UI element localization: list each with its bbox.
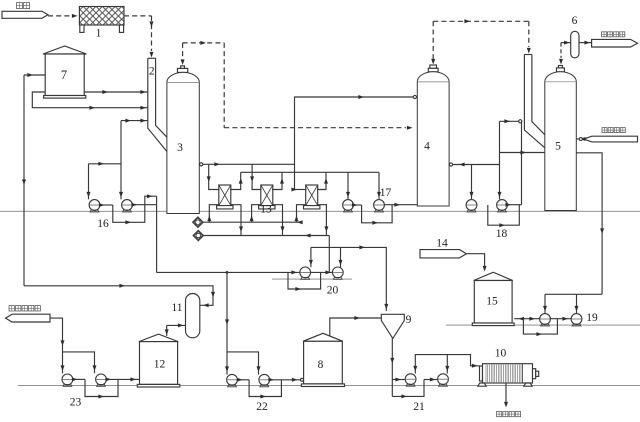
wire: capsule 11 to tank 12 [167,324,186,326]
svg-text:19: 19 [586,312,598,324]
heat exchanger battery 13 (3 units) [219,185,231,206]
wire: flag 14 to tank 15 [466,254,484,268]
svg-text:6: 6 [572,15,578,27]
wire: thickener 9 underflow [391,338,393,396]
dashed: top line into column 4 and duct 5 [433,20,529,22]
wire: HX3 lower-left drop [297,205,307,223]
ground line under pumps 20 [272,278,352,280]
svg-text:10: 10 [495,348,507,360]
wire: pump 22 discharge to tank 8 [237,379,249,381]
wire: pump 23 discharge to tank 12 [73,378,85,380]
wire: capsule 6 inlet [561,42,571,44]
wire: pump 18 discharge riser [507,204,521,206]
wire: downcomer x=156.6 to y=272.4 [156,196,158,272]
flag 含废酸工序 (waste acid) [6,314,51,322]
column 5 nozzle cap [556,68,564,72]
wire: pumps 22 jumper [227,352,259,375]
pump 23a [62,374,73,385]
wire: into tank 7 left [24,74,45,76]
pump 22a [227,374,238,385]
svg-text:20: 20 [327,285,339,297]
wire: pump 16 feed risers [120,121,122,200]
flag 烟气 (flue gas inlet) [2,11,48,18]
svg-text:2: 2 [149,66,155,78]
dashed duct: flag to exchanger 1 [48,15,75,17]
separator capsule 11 [186,294,200,338]
wire: left riser x=24 [23,75,25,286]
wire: HX1 lower-left drop [209,205,219,223]
wire: HX1 lower-right drop [230,205,241,236]
svg-text:3: 3 [177,142,183,154]
ground line under tank 15 / pumps 19 [446,324,640,326]
pump 17b [374,200,385,211]
svg-text:9: 9 [406,314,412,326]
wire: riser x=294.5 (to column 4 top) [294,97,296,190]
svg-text:17: 17 [380,187,392,199]
wire: pump 18 bypass [488,205,520,225]
pump 16b [122,200,133,211]
column 5 [545,72,577,211]
wire: H2 into column 5 [500,152,545,154]
svg-text:21: 21 [413,401,425,413]
flag 14 inlet [420,250,466,258]
wire: filter cake out (down arrow) [505,384,507,404]
wire: pump 20 bypass [288,272,321,289]
dashed duct: exchanger 1 to quench 2 [124,15,152,17]
wire: HX3 upper-right riser [317,172,326,189]
tank 7 [43,46,86,54]
wire: H1 into duct 5 [500,120,522,122]
pump 21b [438,374,449,385]
dashed: column 5 top to capsule 6 [560,43,562,58]
text 含废酸工序 [9,306,14,311]
svg-text:11: 11 [171,302,182,314]
wire: HX2 upper-left drop [252,164,261,189]
flag 后续工序 (to next process) [592,39,638,47]
wire: HX2 upper-right riser [272,172,282,189]
wire: into quench 2 at y=120.6 [121,120,148,122]
wire: drop x=227 to pumps 22 [226,272,228,374]
ground line (main, y=211) [0,210,640,212]
thickener 9 [381,314,404,338]
svg-text:1: 1 [96,28,102,40]
svg-text:7: 7 [61,68,67,82]
wire: drop x=329.3 to pump 20 suction [328,236,330,273]
wire: column 4 bottom outlet [449,164,499,166]
wire: pumps 19 supply header [545,293,602,295]
dashed: column 3 top loop [183,42,225,44]
text 中水补水 [602,128,607,133]
wire: HX1 upper-right riser [230,172,241,189]
wire: tank 7 right to quench 2 [84,91,148,93]
column 4 nozzle cap [428,68,438,72]
pump 22b [259,374,270,385]
svg-text:22: 22 [256,401,268,413]
flag 中水补水 (makeup water) [584,136,638,142]
wire: makeup water into column 5 [576,138,583,140]
wire: T2 bus y=172.3 [241,171,379,173]
pump 17a [343,200,354,211]
wire: T1 bus from column 3 [199,163,294,165]
ground line (bottom, y=385.6) [18,385,640,387]
separator capsule 6 [571,31,579,58]
wire: pump 17 feed drops [347,172,349,199]
text 泥饼入炉 (cake to furnace) [497,412,502,417]
column 3 [167,72,199,213]
wire: pump 16 discharge loop [100,204,113,206]
wire: pump 19 inter-segment [550,318,571,320]
svg-text:13: 13 [260,204,272,216]
wire: pumps 21 discharge to filter press [415,355,479,374]
text 烟气 [17,3,23,9]
pump 20a [300,267,311,278]
wire: pumps 20 top header to thickener [311,247,386,311]
svg-text:4: 4 [424,141,430,153]
diamond instrument B [193,230,203,240]
wire: column 5 right outlet [576,153,602,294]
wire: HX3 upper-left stub [295,189,307,191]
wire: riser V1 x=499.5 [499,121,501,199]
pump 16a [89,200,100,211]
wire: pump 17 discharge to column 4 [353,204,361,206]
pump 23b [96,374,107,385]
diamond instrument A [193,217,203,227]
wire: y=285.8 header into capsule 11 [24,286,213,306]
svg-text:14: 14 [436,238,448,250]
quench duct of column 5 [524,54,532,56]
wire: capsule 6 to flag [579,42,592,44]
wire: collection line y=222.2 [203,221,301,223]
svg-text:8: 8 [318,359,324,371]
svg-text:23: 23 [70,397,82,409]
wire: HX2 lower-left drop [252,205,262,223]
svg-text:18: 18 [496,228,508,240]
svg-text:15: 15 [486,296,498,308]
wire: pumps 23 jumper [63,352,95,373]
pump 20b [332,267,343,278]
wire: pump 18a feed [471,165,473,200]
filter press 10 [480,366,483,381]
wire: HX2 lower-right drop [272,205,282,236]
wire: y=272.4 header to pump 20 [157,271,300,273]
wire: HX3 lower-right drop [317,205,326,236]
wire: collection line y=235.5 [204,235,330,237]
wire: HX1 upper-left drop [209,164,220,189]
pump 19a [540,314,551,325]
column 4 [417,72,449,206]
pump 19b [571,314,582,325]
pump 18a [466,200,477,211]
quench duct 2 [148,57,156,59]
gas-gas exchanger 1 (crosshatched) [79,7,124,26]
column 3 nozzle cap [177,68,187,72]
tank 8 [303,333,343,341]
svg-text:16: 16 [97,218,109,230]
wire: tank 7 left stub loop [32,92,148,108]
svg-text:12: 12 [154,358,166,370]
wire: pump 20 inter-segment [310,271,332,273]
wire: flag to pump 23a [50,318,63,373]
text 后续工序 [602,32,607,37]
wire: pump 19 to tank 15 [514,318,539,320]
pump 21a [405,374,416,385]
pump 18b [497,200,508,211]
tank 15 [474,272,513,280]
wire: top transfer to column 4 [295,96,418,98]
svg-text:5: 5 [555,141,561,153]
wire: pump 19 bypass [523,319,557,334]
wire: tank 8 to thickener 9 [330,318,382,337]
tank 12 [139,334,178,342]
